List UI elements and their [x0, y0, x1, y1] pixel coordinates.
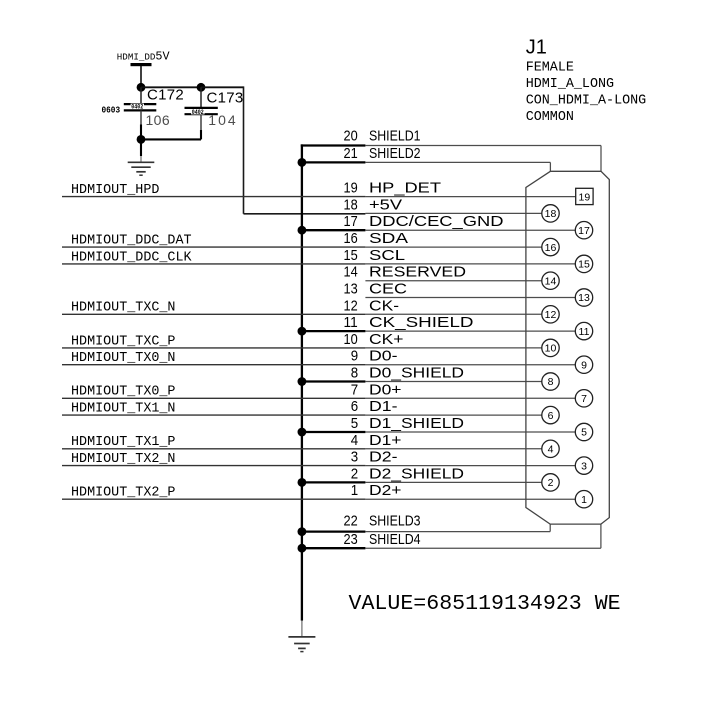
wire pin 4 stub: [365, 448, 541, 450]
svg-text:CON_HDMI_A-LONG: CON_HDMI_A-LONG: [526, 94, 647, 109]
pin 10 terminal circle: [542, 339, 559, 356]
wire pin 20 stub to shell: [365, 145, 601, 147]
pin 3 terminal circle: [575, 457, 592, 474]
pin 11 terminal circle: [575, 322, 592, 339]
svg-text:SHIELD2: SHIELD2: [369, 145, 421, 162]
wire pin 8 stub: [365, 381, 541, 383]
svg-text:COMMON: COMMON: [526, 110, 574, 125]
package label 0402 of C173: [191, 109, 204, 114]
wire net HDMIOUT_DDC_DAT to pin 16: [62, 246, 365, 248]
svg-text:11: 11: [579, 326, 590, 338]
svg-text:CK+: CK+: [369, 331, 404, 348]
wire net HDMIOUT_TXC_P to pin 10: [62, 347, 365, 349]
capacitor C172: [140, 87, 142, 104]
junction pin 11: [298, 327, 307, 336]
pin 4 terminal circle: [542, 440, 559, 457]
svg-text:D2_SHIELD: D2_SHIELD: [369, 465, 464, 482]
svg-text:D1-: D1-: [369, 398, 398, 415]
junction node +5V at C173 top: [197, 83, 206, 92]
svg-text:HDMIOUT_TX1_N: HDMIOUT_TX1_N: [71, 402, 175, 417]
wire +5V horizontal C172-C173: [141, 86, 201, 88]
svg-text:+5V: +5V: [369, 196, 402, 213]
wire net HDMIOUT_HPD to pin 19: [62, 196, 365, 198]
wire pin 17 stub: [365, 229, 575, 231]
svg-text:D0-: D0-: [369, 348, 398, 365]
wire pin 17 DDC/CEC_GND net: [302, 229, 366, 231]
svg-text:C172: C172: [147, 86, 184, 103]
svg-text:17: 17: [344, 213, 358, 230]
wire pin 10 stub: [365, 347, 541, 349]
svg-text:HDMIOUT_TX0_N: HDMIOUT_TX0_N: [71, 351, 175, 366]
svg-text:14: 14: [344, 264, 358, 281]
svg-text:CEC: CEC: [369, 281, 407, 298]
svg-text:HDMIOUT_HPD: HDMIOUT_HPD: [71, 183, 159, 198]
pin 12 terminal circle: [542, 306, 559, 323]
svg-text:HDMIOUT_TXC_P: HDMIOUT_TXC_P: [71, 334, 175, 349]
svg-text:HDMI_A_LONG: HDMI_A_LONG: [526, 77, 614, 92]
pin 8 terminal circle: [542, 373, 559, 390]
svg-text:D2+: D2+: [369, 482, 402, 499]
svg-text:HDMIOUT_TX1_P: HDMIOUT_TX1_P: [71, 435, 175, 450]
svg-text:HDMIOUT_TX2_P: HDMIOUT_TX2_P: [71, 486, 175, 501]
svg-text:23: 23: [344, 531, 358, 548]
svg-text:12: 12: [344, 297, 358, 314]
wire pin 5 stub: [365, 431, 575, 433]
wire pin 22 stub to shell: [365, 531, 550, 533]
wire GND bus stub to ground: [301, 621, 303, 637]
svg-text:11: 11: [344, 314, 358, 331]
svg-text:0402: 0402: [131, 104, 143, 112]
svg-text:12: 12: [545, 309, 557, 321]
svg-text:19: 19: [579, 192, 591, 204]
pin 5 terminal circle: [575, 423, 592, 440]
ground top-left: [128, 161, 155, 163]
wire pin 15 stub: [365, 263, 575, 265]
wire net HDMIOUT_TX2_P to pin 1: [62, 498, 365, 500]
svg-text:16: 16: [344, 230, 358, 247]
connector J1 body outline: [526, 171, 609, 524]
junction node +5V at C172 top: [137, 83, 146, 92]
svg-text:D1_SHIELD: D1_SHIELD: [369, 415, 464, 432]
svg-text:6: 6: [351, 398, 358, 415]
wire pin 1 stub: [365, 498, 575, 500]
svg-text:CK-: CK-: [369, 297, 399, 314]
svg-text:20: 20: [344, 128, 358, 145]
wire pin 9 stub: [365, 364, 575, 366]
pin 2 terminal circle: [542, 474, 559, 491]
pin 19 terminal square: [576, 188, 593, 204]
wire pin 3 stub: [365, 465, 575, 467]
svg-text:19: 19: [344, 180, 358, 197]
svg-text:21: 21: [344, 145, 358, 162]
svg-text:D0+: D0+: [369, 381, 402, 398]
wire pin 21 stub to shell: [365, 161, 550, 163]
svg-text:5: 5: [351, 415, 358, 432]
svg-text:HDMIOUT_TXC_N: HDMIOUT_TXC_N: [71, 301, 175, 316]
wire pin 6 stub: [365, 414, 541, 416]
wire cap bottoms to ground: [140, 138, 201, 140]
wire pin 12 stub: [365, 313, 541, 315]
svg-text:14: 14: [545, 275, 557, 287]
junction pin 8: [298, 377, 307, 386]
wire +5V vertical down to pin 18 row: [243, 86, 245, 213]
wire pin 8 D0_SHIELD net: [302, 380, 366, 382]
svg-text:1: 1: [581, 494, 587, 506]
wire pin 13 stub: [365, 297, 575, 299]
junction pin 5: [298, 428, 307, 437]
wire net HDMIOUT_TX0_P to pin 7: [62, 397, 365, 399]
svg-text:2: 2: [351, 465, 358, 482]
ground bottom: [288, 636, 315, 638]
svg-text:6: 6: [548, 410, 554, 422]
wire pin 16 stub: [365, 246, 541, 248]
svg-text:HDMIOUT_TX0_P: HDMIOUT_TX0_P: [71, 385, 175, 400]
svg-text:3: 3: [581, 460, 587, 472]
svg-text:15: 15: [578, 259, 590, 271]
pin 9 terminal circle: [575, 356, 592, 373]
svg-text:DDC/CEC_GND: DDC/CEC_GND: [369, 213, 504, 230]
svg-text:VALUE=685119134923 WE: VALUE=685119134923 WE: [349, 592, 621, 616]
svg-text:SHIELD3: SHIELD3: [369, 513, 421, 530]
svg-text:FEMALE: FEMALE: [526, 60, 574, 75]
svg-text:104: 104: [208, 112, 237, 128]
svg-text:HDMIOUT_DDC_CLK: HDMIOUT_DDC_CLK: [71, 250, 192, 265]
pin 16 terminal circle: [542, 238, 559, 255]
svg-text:0402: 0402: [192, 109, 204, 117]
GND bus vertical wire: [301, 144, 303, 620]
svg-text:18: 18: [545, 208, 557, 220]
svg-text:SDA: SDA: [369, 230, 408, 247]
wire pin 19 stub: [365, 196, 575, 198]
svg-text:J1: J1: [526, 36, 547, 58]
junction pin 23: [298, 544, 307, 553]
pin 14 terminal circle: [542, 272, 559, 289]
svg-text:16: 16: [545, 242, 557, 254]
junction pin 22: [298, 527, 307, 536]
junction pin 21: [298, 158, 307, 167]
svg-text:13: 13: [578, 292, 590, 304]
svg-text:8: 8: [351, 365, 358, 382]
svg-text:7: 7: [351, 381, 358, 398]
wire pin 20 SHIELD1 net: [301, 144, 366, 146]
pin 15 terminal circle: [575, 255, 592, 272]
junction node cap ground: [137, 135, 146, 144]
svg-text:4: 4: [548, 444, 554, 456]
svg-text:22: 22: [344, 513, 358, 530]
wire net HDMIOUT_TX1_N to pin 6: [62, 414, 365, 416]
svg-text:D1+: D1+: [369, 432, 402, 449]
pin 6 terminal circle: [542, 406, 559, 423]
svg-text:13: 13: [344, 281, 358, 298]
wire +5V to corner: [201, 86, 244, 88]
svg-text:3: 3: [351, 449, 358, 466]
wire pin 23 stub to shell: [365, 547, 601, 549]
pin 13 terminal circle: [575, 289, 592, 306]
svg-text:17: 17: [578, 225, 590, 237]
svg-text:D2-: D2-: [369, 449, 398, 466]
wire net HDMIOUT_TX1_P to pin 4: [62, 448, 365, 450]
wire pin 2 D2_SHIELD net: [302, 481, 366, 483]
wire pin 21 SHIELD2 net: [302, 161, 366, 163]
svg-text:10: 10: [344, 331, 358, 348]
svg-text:9: 9: [351, 348, 358, 365]
svg-text:C173: C173: [207, 90, 244, 107]
wire pin 7 stub: [365, 397, 575, 399]
svg-text:4: 4: [351, 432, 358, 449]
junction pin 2: [298, 478, 307, 487]
wire pin 5 D1_SHIELD net: [302, 431, 366, 433]
svg-text:1: 1: [351, 482, 358, 499]
wire net HDMIOUT_TX0_N to pin 9: [62, 364, 365, 366]
svg-text:10: 10: [545, 343, 557, 355]
svg-text:HDMI_DD5V: HDMI_DD5V: [117, 50, 171, 64]
svg-text:15: 15: [344, 247, 358, 264]
svg-text:5: 5: [581, 427, 587, 439]
capacitor C173: [200, 87, 202, 108]
wire to top-left ground: [140, 139, 142, 156]
pin 17 terminal circle: [575, 222, 592, 239]
wire pin 11 CK_SHIELD net: [302, 330, 366, 332]
svg-text:18: 18: [344, 196, 358, 213]
wire pin 2 stub: [365, 481, 541, 483]
svg-text:0603: 0603: [102, 105, 121, 115]
svg-text:9: 9: [581, 359, 587, 371]
svg-text:SHIELD4: SHIELD4: [369, 531, 421, 548]
svg-text:SCL: SCL: [369, 247, 405, 264]
wire net HDMIOUT_DDC_CLK to pin 15: [62, 263, 365, 265]
svg-text:D0_SHIELD: D0_SHIELD: [369, 365, 464, 382]
pin 18 terminal circle: [542, 205, 559, 222]
wire pin 11 stub: [365, 330, 575, 332]
wire net HDMIOUT_TXC_N to pin 12: [62, 313, 365, 315]
wire pin 14 stub: [365, 280, 541, 282]
pin 1 terminal circle: [575, 491, 592, 508]
pin 7 terminal circle: [575, 390, 592, 407]
svg-text:7: 7: [581, 393, 587, 405]
svg-text:HDMIOUT_DDC_DAT: HDMIOUT_DDC_DAT: [71, 234, 192, 249]
svg-text:106: 106: [146, 112, 171, 128]
svg-text:8: 8: [548, 376, 554, 388]
svg-text:2: 2: [548, 477, 554, 489]
wire pin 18 stub: [365, 212, 541, 214]
wire pin 23 SHIELD4 net: [302, 547, 366, 549]
svg-text:CK_SHIELD: CK_SHIELD: [369, 314, 474, 331]
junction pin 17: [298, 226, 307, 235]
wire pin 22 SHIELD3 net: [302, 530, 366, 532]
wire net HDMIOUT_TX2_N to pin 3: [62, 465, 365, 467]
svg-text:SHIELD1: SHIELD1: [369, 128, 421, 145]
package label 0402 of C172: [131, 104, 144, 109]
svg-text:HP_DET: HP_DET: [369, 180, 441, 197]
svg-text:RESERVED: RESERVED: [369, 264, 466, 281]
svg-text:HDMIOUT_TX2_N: HDMIOUT_TX2_N: [71, 452, 175, 467]
